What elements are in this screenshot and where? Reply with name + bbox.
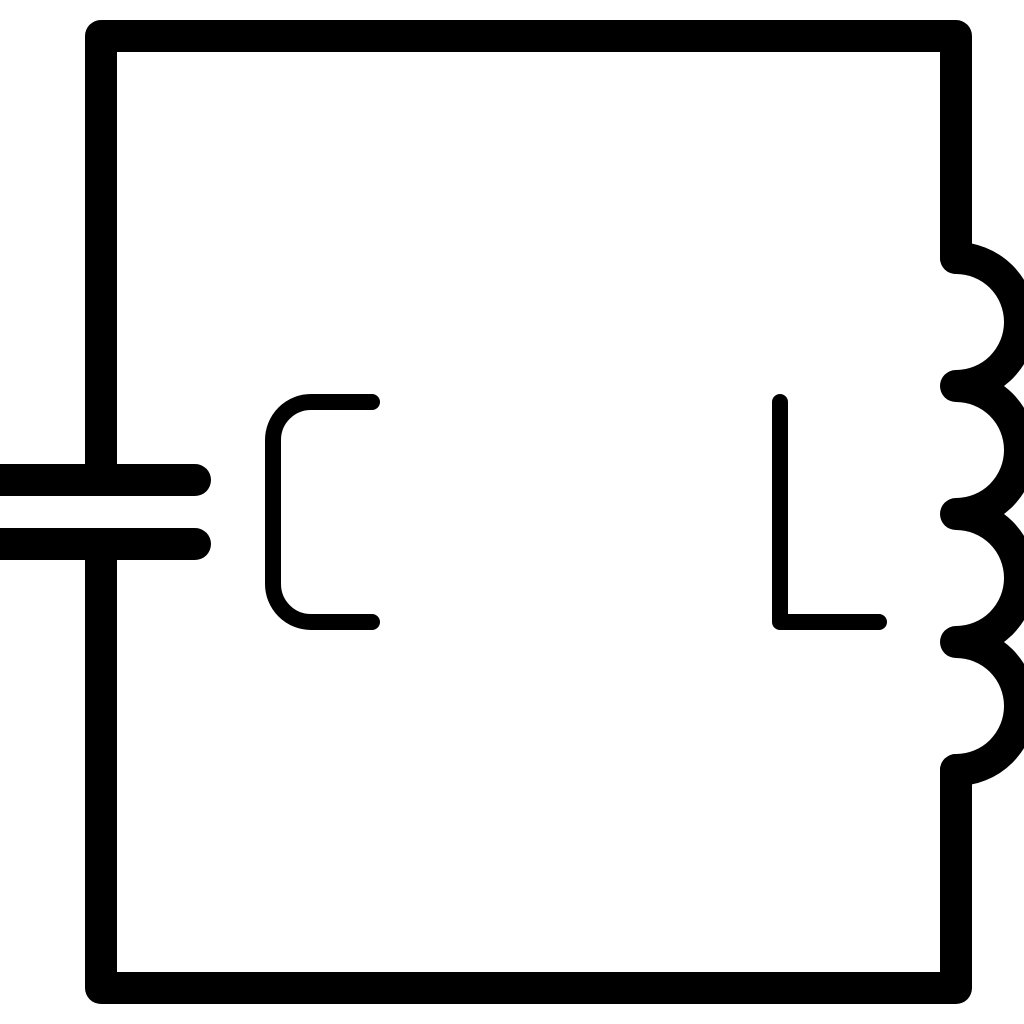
capacitor C1 bottom plate [0,528,195,560]
label C [273,402,372,622]
capacitor C1 top plate [0,464,195,496]
wire [101,544,956,988]
inductor L1 [956,258,1020,770]
label L [780,402,879,622]
wire [101,36,956,480]
